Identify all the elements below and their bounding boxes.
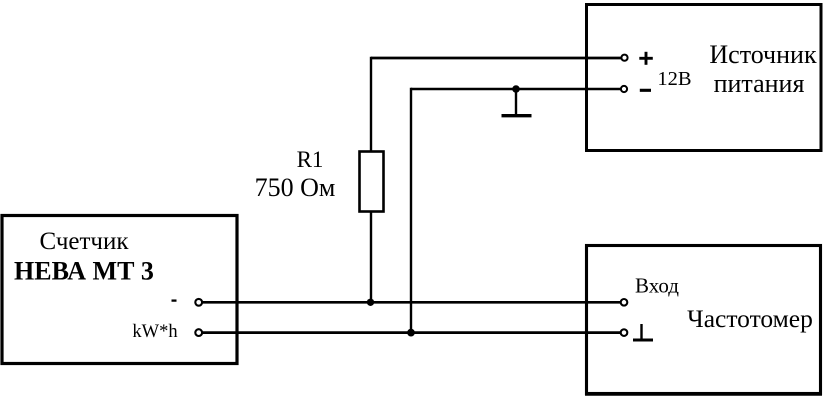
terminal circle frequency meter input (621, 299, 628, 306)
label Источник (709, 40, 817, 69)
label 12В (657, 68, 691, 90)
svg-text:питания: питания (714, 69, 805, 98)
label R1 (297, 147, 324, 172)
wire meter kW*h output to frequency meter ground (horizontal) (202, 331, 621, 334)
label Счетчик (39, 228, 129, 255)
svg-text:Частотомер: Частотомер (687, 304, 813, 333)
junction dot on minus wire at ground (512, 85, 520, 93)
label НЕВА МТ 3 (14, 257, 154, 286)
meter box (Счетчик НЕВА МТ 3) (2, 216, 237, 364)
terminal circle meter minus (195, 299, 202, 306)
label Вход (635, 274, 679, 298)
label Частотомер (687, 304, 813, 333)
wire meter minus output to Вход (horizontal) (202, 301, 621, 304)
label + terminal (639, 52, 653, 65)
svg-text:Вход: Вход (635, 274, 679, 298)
junction dot resistor lead on minus wire (367, 299, 374, 306)
ground symbol at frequency meter input (633, 324, 653, 340)
wire from -12V to kW*h net (horizontal) (411, 88, 621, 90)
label 750 Ом (255, 173, 336, 202)
label - terminal (640, 89, 651, 92)
svg-text:750 Ом: 750 Ом (255, 173, 336, 202)
terminal circle meter kW*h (195, 329, 202, 336)
resistor R1 body (360, 152, 384, 212)
svg-text:Источник: Источник (709, 40, 817, 69)
terminal circle supply minus (621, 86, 627, 92)
svg-text:12В: 12В (657, 68, 691, 90)
terminal circle frequency meter ground (621, 329, 628, 336)
power supply box (Источник питания) (587, 5, 822, 151)
label питания (714, 69, 805, 98)
junction dot vertical wire on kW*h wire (407, 329, 415, 337)
wire resistor bottom lead (vertical) (370, 212, 372, 304)
svg-text:R1: R1 (297, 147, 324, 172)
frequency meter box (Частотомер) (585, 246, 822, 395)
label minus on meter output (172, 299, 177, 301)
wire vertical from -12V wire down to kW*h wire (410, 88, 412, 333)
ground symbol at power supply minus (502, 89, 532, 116)
label kW*h (132, 322, 177, 342)
wire resistor top lead (vertical) (370, 57, 372, 151)
terminal circle supply plus (621, 55, 627, 61)
wire from +12V to resistor top (horizontal) (371, 57, 622, 60)
svg-text:НЕВА МТ 3: НЕВА МТ 3 (14, 257, 154, 286)
svg-text:Счетчик: Счетчик (39, 228, 129, 255)
svg-text:kW*h: kW*h (132, 322, 177, 342)
